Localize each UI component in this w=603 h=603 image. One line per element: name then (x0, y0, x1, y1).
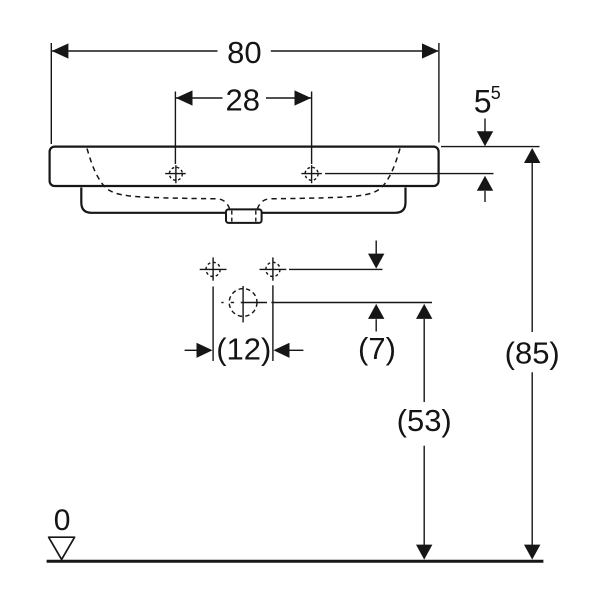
reference line from right tap hole to 5.5 dim (325, 173, 493, 175)
dimension 12: right arrow tail (289, 349, 303, 351)
dimension 80: line left segment (52, 50, 218, 52)
svg-text:5: 5 (474, 83, 492, 119)
reference line top of rim extended right (441, 146, 540, 148)
dimension 80: right arrow (422, 43, 439, 58)
svg-text:(85): (85) (505, 336, 560, 371)
svg-text:(53): (53) (397, 403, 452, 438)
drain trap centerline horizontal (241, 302, 267, 304)
svg-text:80: 80 (227, 35, 261, 70)
reference line fixing holes level (289, 268, 383, 270)
dimension 12: extension line right (272, 285, 274, 361)
dimension 28: extension line right (311, 92, 313, 165)
dimension 80: line right segment (271, 50, 438, 52)
svg-text:5: 5 (491, 83, 501, 103)
tap hole right: cross + dashed circle (301, 165, 322, 183)
dimension 7: upper arrow (down) (368, 254, 384, 269)
floor line (47, 560, 544, 563)
drain trap dashed circle (229, 289, 257, 317)
dimension 53: upper arrow (up) (416, 304, 432, 319)
inner bowl dashed contour right (258, 149, 401, 209)
drain trap centerline dash left (221, 302, 223, 304)
dimension 12: right arrow (left-pointing) (274, 343, 290, 358)
dimension 5.5: upper arrow (down) (477, 131, 493, 146)
dimension 7: lower arrow tail (375, 319, 377, 331)
dimension 12: left arrow tail (185, 349, 198, 351)
dimension 7: upper arrow tail (375, 241, 377, 255)
dimension 12: extension line left (212, 287, 214, 362)
dimension 85: upper arrow (up) (524, 148, 540, 163)
basin rim outline (50, 147, 439, 186)
svg-text:(7): (7) (358, 331, 396, 366)
fixing hole left: cross + dashed circle (200, 257, 227, 280)
dimension 5.5: lower arrow (up) (477, 176, 493, 191)
svg-text:(12): (12) (216, 332, 271, 367)
fixing hole right: cross + dashed circle (260, 257, 287, 280)
dimension 53: line lower segment (423, 446, 425, 545)
svg-text:0: 0 (54, 504, 71, 537)
svg-text:28: 28 (225, 82, 259, 117)
dimension 7: lower arrow (up) (368, 304, 384, 319)
dimension 80: left arrow (52, 43, 69, 58)
basin lower body (81, 188, 405, 213)
datum triangle (49, 537, 75, 559)
dimension 12: left arrow (right-pointing) (197, 343, 213, 358)
inner bowl dashed contour left (87, 149, 230, 209)
dimension 28: extension line left (174, 92, 176, 165)
drain box (226, 209, 262, 223)
dimension 85: line lower segment (531, 372, 533, 545)
dimension 28: line right segment (266, 97, 311, 99)
dimension 28: left arrow (176, 90, 193, 105)
dimension 80: extension line right (438, 43, 440, 143)
dimension 28: right arrow (295, 90, 312, 105)
dimension 85: line upper segment (531, 163, 533, 332)
drain dashed ticks (231, 211, 233, 222)
dimension 5.5: lower arrow tail (484, 191, 486, 202)
dimension 5.5: upper arrow tail (484, 119, 486, 133)
dimension 53: line upper segment (423, 319, 425, 402)
dimension 80: extension line left (50, 43, 52, 144)
reference line trap level (271, 302, 432, 304)
dimension 53: lower arrow (down) (416, 545, 432, 560)
drain trap centerline vertical (242, 286, 244, 322)
dimension 85: lower arrow (down) (524, 545, 540, 560)
dimension 28: line left segment (176, 97, 223, 99)
tap hole left: cross + dashed circle (165, 165, 186, 183)
drain trap centerline dash mid (231, 302, 234, 304)
